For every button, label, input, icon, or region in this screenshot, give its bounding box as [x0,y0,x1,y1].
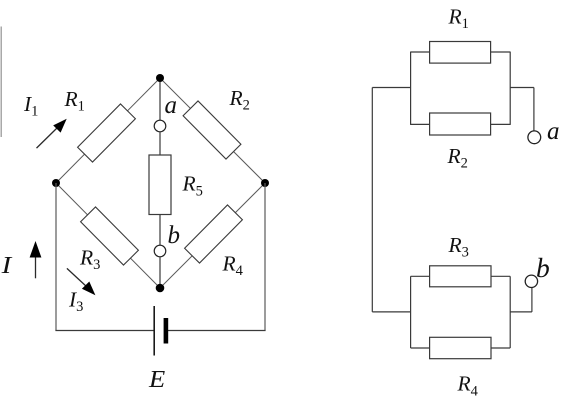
wire: R2 left lead [411,123,430,125]
current arrow I (up) [30,241,42,278]
wire: R4 right lead [491,347,510,349]
wire: right node down [264,183,266,331]
node junction dot top [156,74,164,82]
wire: bottom-left bus [410,276,412,348]
resistor R3 box (parallel) [430,266,491,287]
wire: battery to bottom right [168,330,266,332]
resistor R2 body (bridge) [183,101,241,159]
wire: top tap horizontal [372,87,410,89]
wire: tap to terminal a [510,87,534,89]
node junction dot left [52,179,60,187]
wire: top node to terminal a [159,78,161,120]
svg-text:I: I [0,253,12,279]
wire: terminal b to bottom node [159,257,161,288]
battery E long plate [153,306,155,356]
svg-text:a: a [165,92,178,119]
node junction dot bottom [156,284,165,293]
wire: left node down [55,183,57,331]
resistor R4 body (bridge) [185,205,243,263]
wire: R3 left lead [411,275,430,277]
svg-text:a: a [547,118,560,145]
svg-text:E: E [148,366,165,393]
battery E short thick plate [164,318,169,344]
terminal b circle (right) [525,275,537,287]
wire: right circuit long vertical [371,88,373,312]
wire: bridge arm bottom-left [56,183,160,288]
resistor R4 box (parallel) [430,337,491,358]
resistor R3 body (bridge) [81,207,139,265]
wire: R1 right lead [491,51,511,53]
wire: bridge arm top-right [160,78,265,183]
wire: terminal a to R5 [159,132,161,155]
wire: top-right bus [509,52,511,125]
current arrow I3 [67,268,96,295]
terminal a circle (bridge) [154,120,166,132]
wire: tap to terminal b [510,311,532,313]
wire: R2 right lead [491,123,511,125]
svg-text:b: b [536,252,550,283]
wire: bottom tap horizontal [372,311,410,313]
wire: bottom-right bus [509,276,511,348]
left-edge crop fragment line [0,27,2,138]
current arrow I1 [37,119,67,148]
resistor R2 box (parallel) [430,113,491,135]
wire: R3 right lead [491,275,510,277]
resistor R1 body (bridge) [78,104,136,162]
resistor R1 box (parallel) [430,42,491,64]
node junction dot right [261,179,269,187]
terminal a circle (right) [528,131,541,144]
wire: bridge arm bottom-right [160,183,265,288]
terminal b circle (bridge) [154,245,166,257]
wire: down to terminal a [533,88,535,131]
wire: R4 left lead [411,347,430,349]
wire: bridge arm top-left [56,78,160,183]
wire: top-left bus [410,52,412,125]
wire: R5 to terminal b [159,215,161,246]
svg-text:b: b [168,222,181,249]
wire: up to terminal b [531,288,533,312]
wire: R1 left lead [411,51,430,53]
wire: bottom left to battery [55,330,154,332]
resistor R5 body [149,155,171,215]
